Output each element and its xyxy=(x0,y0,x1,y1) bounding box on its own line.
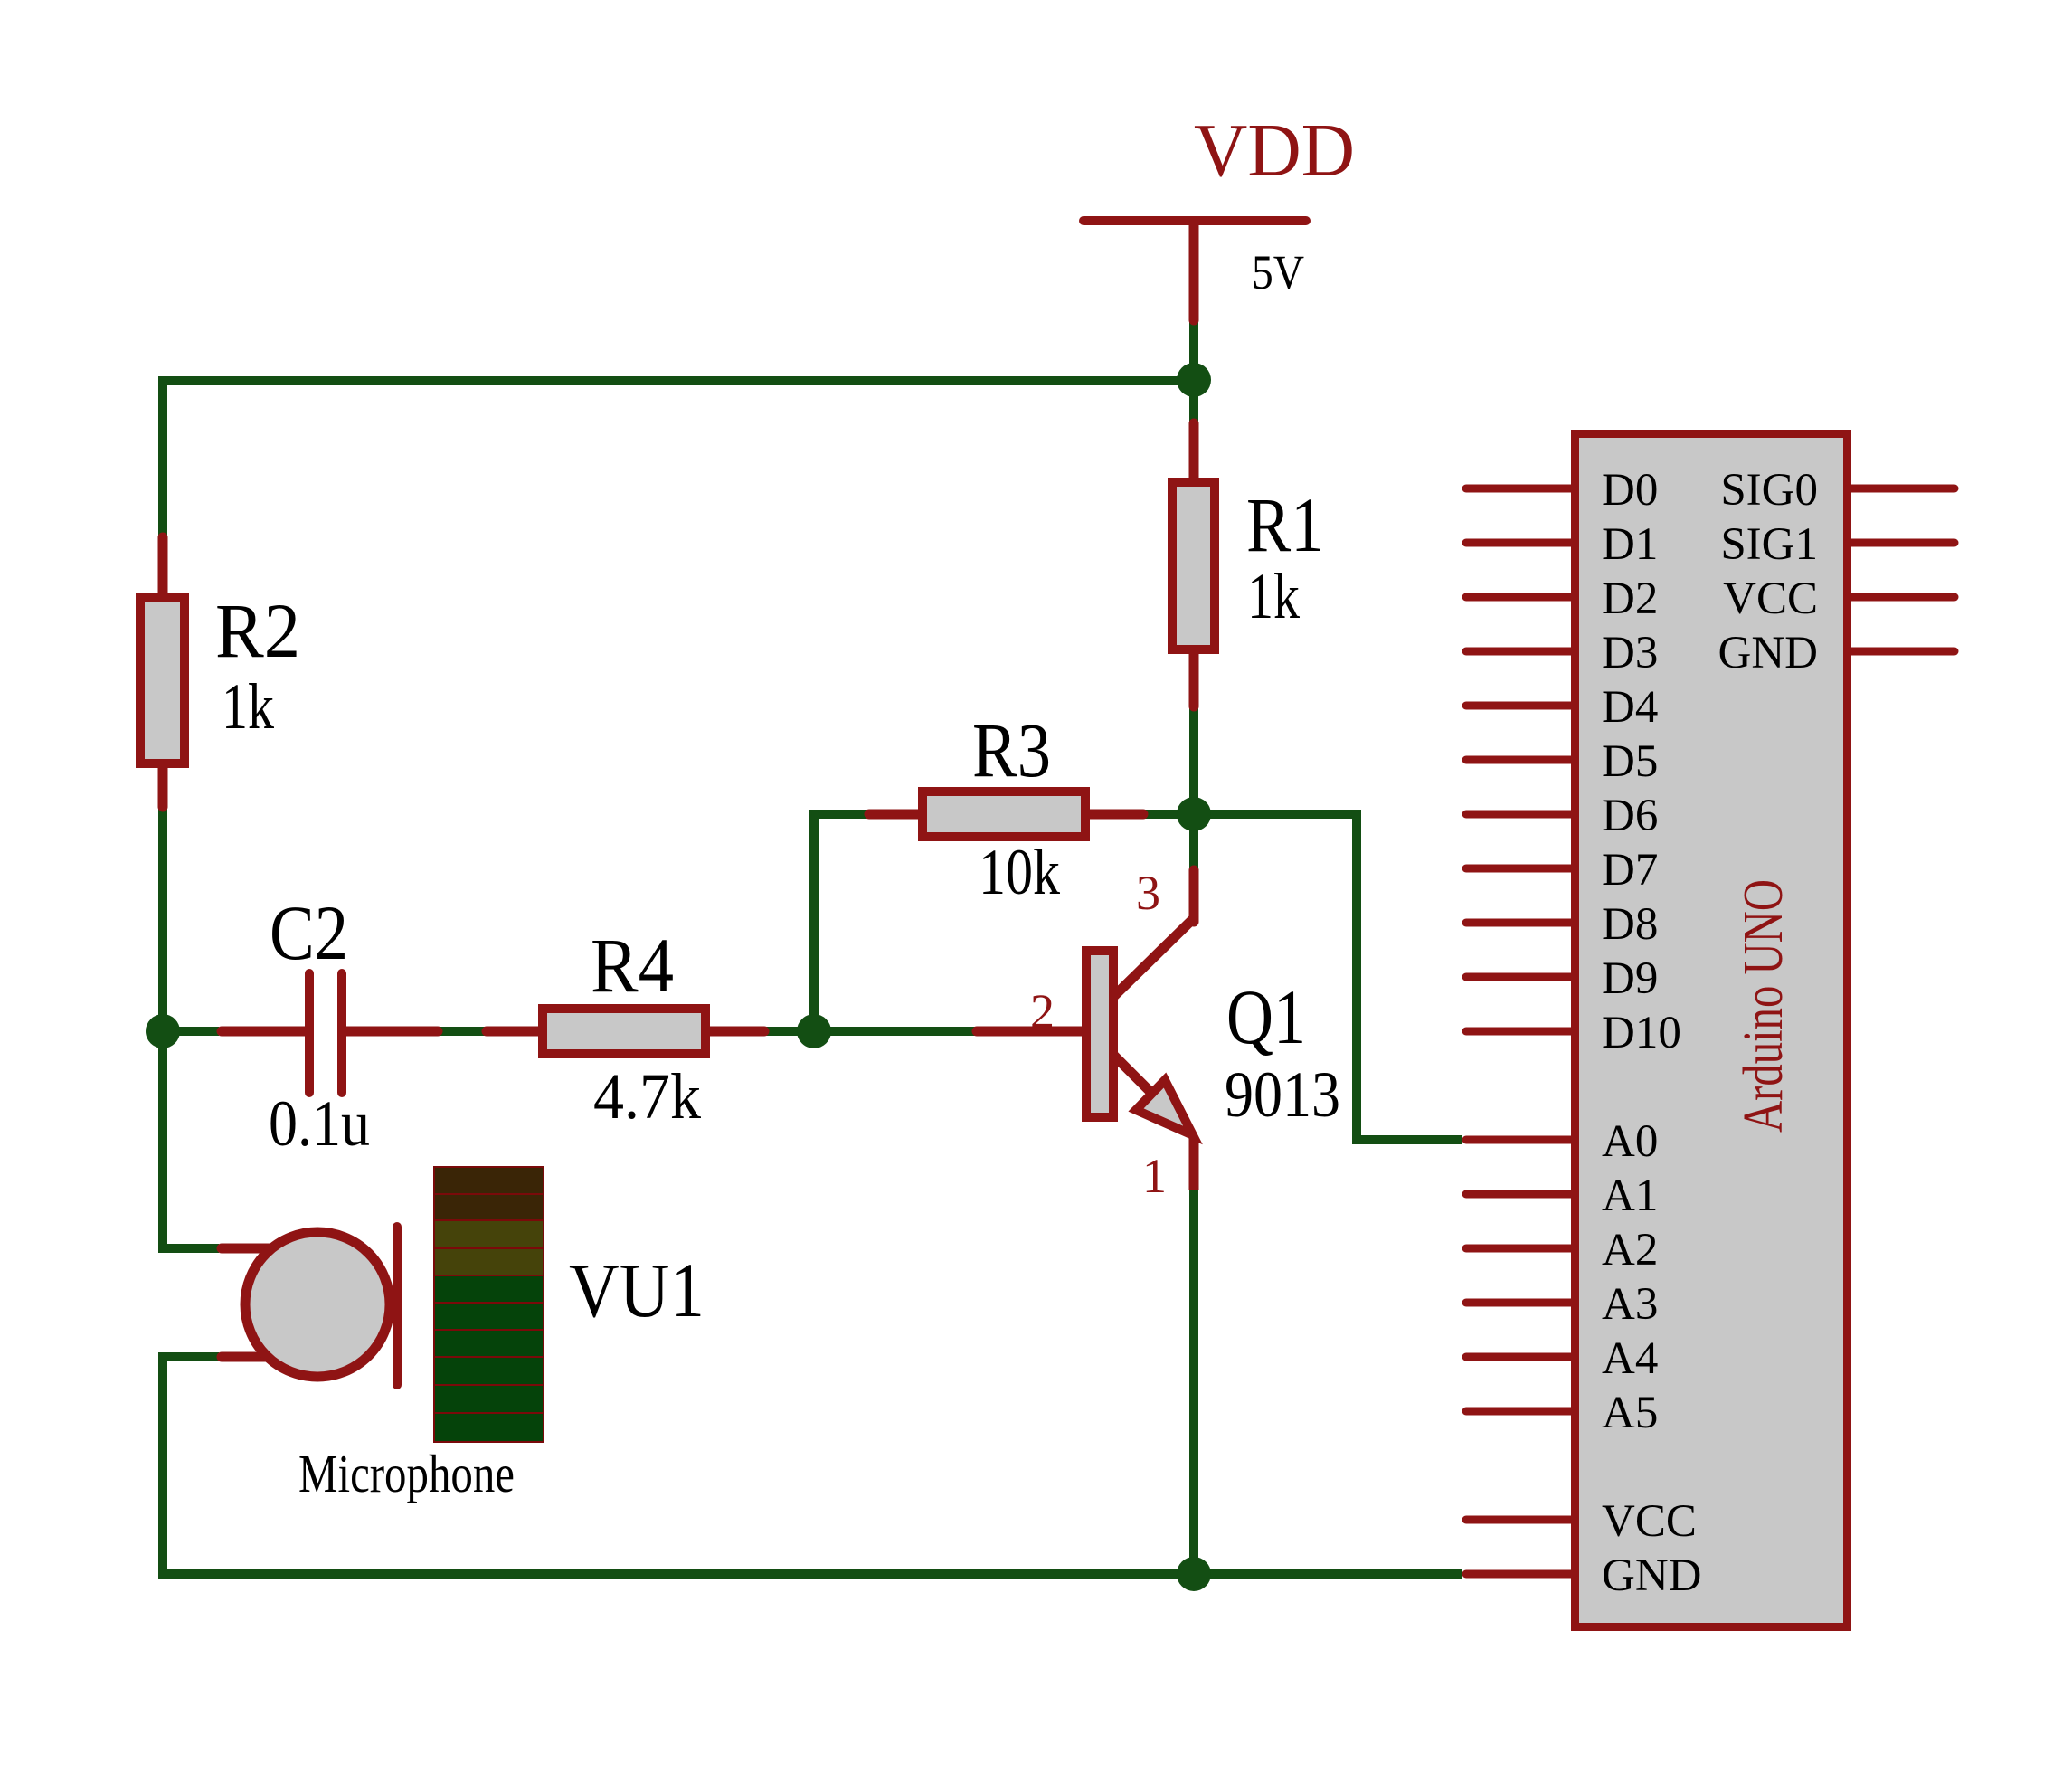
svg-text:D2: D2 xyxy=(1602,574,1658,624)
pin VCC left xyxy=(1466,1516,1574,1524)
microphone body circle xyxy=(245,1232,390,1377)
svg-text:5V: 5V xyxy=(1252,245,1304,299)
wire left node to C2 xyxy=(163,1027,219,1036)
svg-text:D3: D3 xyxy=(1602,628,1658,678)
microphone membrane bar xyxy=(393,1227,402,1385)
pin D7 xyxy=(1466,865,1574,873)
wire R3 right lead to collector node xyxy=(1143,810,1194,819)
resistor R1 leads xyxy=(1189,423,1199,484)
svg-text:VU1: VU1 xyxy=(569,1247,705,1333)
svg-text:3: 3 xyxy=(1136,866,1160,920)
LED bargraph VU1 segment 4 xyxy=(434,1248,544,1275)
transistor Q1 base bar xyxy=(1086,951,1113,1117)
svg-text:D0: D0 xyxy=(1602,465,1658,516)
wire R4 right lead to base node xyxy=(762,1027,814,1036)
node ground junction xyxy=(1177,1557,1211,1591)
pin D4 xyxy=(1466,702,1574,710)
LED bargraph VU1 segment 3 xyxy=(434,1220,544,1248)
pin GND left xyxy=(1466,1570,1574,1579)
svg-text:D8: D8 xyxy=(1602,899,1658,950)
svg-text:R2: R2 xyxy=(215,587,300,674)
pin D3 xyxy=(1466,648,1574,656)
resistor R3 leads xyxy=(869,810,923,820)
pin D9 xyxy=(1466,973,1574,981)
resistor R3 body xyxy=(923,792,1085,837)
pin D6 xyxy=(1466,811,1574,819)
svg-text:SIG0: SIG0 xyxy=(1720,465,1818,516)
svg-text:Arduino UNO: Arduino UNO xyxy=(1733,879,1794,1133)
svg-text:A3: A3 xyxy=(1602,1279,1658,1330)
node VDD junction xyxy=(1177,363,1211,397)
svg-text:A2: A2 xyxy=(1602,1225,1658,1275)
capacitor C2 leads xyxy=(222,1027,306,1037)
wire top rail from left corner to VDD node xyxy=(163,381,1194,1248)
LED bargraph VU1 segment 1 xyxy=(434,1167,544,1194)
svg-text:D5: D5 xyxy=(1602,736,1658,787)
svg-text:1k: 1k xyxy=(1247,560,1300,632)
svg-text:D4: D4 xyxy=(1602,682,1658,733)
transistor Q1 emitter stem xyxy=(1189,1138,1199,1190)
svg-text:0.1u: 0.1u xyxy=(269,1087,370,1160)
Arduino UNO body box U1 xyxy=(1576,434,1848,1627)
svg-text:Microphone: Microphone xyxy=(298,1444,515,1503)
svg-text:D9: D9 xyxy=(1602,953,1658,1004)
wire Q1 emitter down to ground rail xyxy=(1189,1190,1198,1574)
LED bargraph VU1 segment 2 xyxy=(434,1194,544,1220)
svg-text:D10: D10 xyxy=(1602,1008,1681,1058)
resistor R2 leads xyxy=(158,537,168,597)
svg-text:D1: D1 xyxy=(1602,519,1658,570)
svg-text:1k: 1k xyxy=(222,670,274,743)
capacitor C2 plates xyxy=(305,973,314,1093)
wire R3 left lead corner down to base node xyxy=(814,814,871,1031)
pin A3 xyxy=(1466,1299,1574,1307)
resistor R2 body xyxy=(140,597,185,763)
svg-text:10k: 10k xyxy=(979,836,1060,908)
microphone leads xyxy=(222,1244,270,1254)
svg-text:A5: A5 xyxy=(1602,1388,1658,1438)
pin SIG1 xyxy=(1849,539,1954,547)
pin VCC right xyxy=(1849,593,1954,602)
wire collector node to Arduino A0 xyxy=(1194,814,1462,1140)
node C2 input junction xyxy=(146,1014,180,1048)
pin A5 xyxy=(1466,1408,1574,1416)
svg-text:A1: A1 xyxy=(1602,1171,1658,1221)
svg-text:SIG1: SIG1 xyxy=(1720,519,1818,570)
LED bargraph VU1 segment 8 xyxy=(434,1357,544,1385)
svg-text:C2: C2 xyxy=(270,889,348,976)
svg-text:D6: D6 xyxy=(1602,791,1658,841)
LED bargraph VU1 segment 9 xyxy=(434,1385,544,1413)
LED bargraph VU1 segment 7 xyxy=(434,1330,544,1357)
pin D2 xyxy=(1466,593,1574,602)
transistor Q1 base lead xyxy=(977,1027,1084,1037)
transistor Q1 collector diagonal xyxy=(1113,918,1194,997)
svg-text:2: 2 xyxy=(1030,984,1055,1038)
wire R1 bottom to collector node xyxy=(1189,706,1198,814)
power symbol VDD bar xyxy=(1084,216,1306,225)
svg-text:VCC: VCC xyxy=(1602,1496,1697,1547)
svg-text:GND: GND xyxy=(1602,1550,1702,1601)
node collector junction xyxy=(1177,797,1211,831)
svg-text:R1: R1 xyxy=(1246,481,1324,568)
svg-text:4.7k: 4.7k xyxy=(593,1060,701,1133)
svg-text:9013: 9013 xyxy=(1225,1058,1340,1131)
svg-text:VDD: VDD xyxy=(1194,109,1355,193)
svg-text:R3: R3 xyxy=(972,706,1051,793)
resistor R4 leads xyxy=(487,1027,543,1037)
pin A0 xyxy=(1466,1136,1574,1144)
wire microphone bottom pin to ground rail xyxy=(163,1357,1462,1574)
transistor Q1 emitter arrow xyxy=(1136,1080,1193,1135)
resistor R1 body xyxy=(1172,482,1215,649)
pin D5 xyxy=(1466,756,1574,764)
pin A4 xyxy=(1466,1353,1574,1361)
svg-text:R4: R4 xyxy=(591,922,674,1009)
wire base node to Q1 base xyxy=(814,1027,981,1036)
pin SIG0 xyxy=(1849,485,1954,493)
pin A1 xyxy=(1466,1190,1574,1199)
wire VDD stem green below power bar xyxy=(1189,320,1198,426)
power symbol VDD stem xyxy=(1189,223,1199,320)
LED bargraph VU1 segment 5 xyxy=(434,1275,544,1303)
node base junction xyxy=(797,1014,831,1048)
pin A2 xyxy=(1466,1245,1574,1253)
svg-text:1: 1 xyxy=(1142,1149,1167,1203)
wire C2 to R4 xyxy=(438,1027,491,1036)
svg-text:VCC: VCC xyxy=(1723,574,1818,624)
pin D8 xyxy=(1466,919,1574,927)
transistor Q1 emitter diagonal xyxy=(1113,1055,1171,1113)
LED bargraph VU1 segment 10 xyxy=(434,1413,544,1442)
pin GND right xyxy=(1849,648,1954,656)
svg-text:A0: A0 xyxy=(1602,1116,1658,1167)
transistor Q1 collector stem xyxy=(1189,870,1199,922)
svg-text:A4: A4 xyxy=(1602,1333,1658,1384)
pin D0 xyxy=(1466,485,1574,493)
wire collector node down to Q1 collector xyxy=(1189,814,1198,874)
pin D10 xyxy=(1466,1028,1574,1036)
resistor R4 body xyxy=(543,1009,705,1054)
svg-text:D7: D7 xyxy=(1602,845,1658,896)
svg-text:GND: GND xyxy=(1718,628,1819,678)
svg-text:Q1: Q1 xyxy=(1226,973,1306,1060)
LED bargraph VU1 segment 6 xyxy=(434,1303,544,1330)
pin D1 xyxy=(1466,539,1574,547)
